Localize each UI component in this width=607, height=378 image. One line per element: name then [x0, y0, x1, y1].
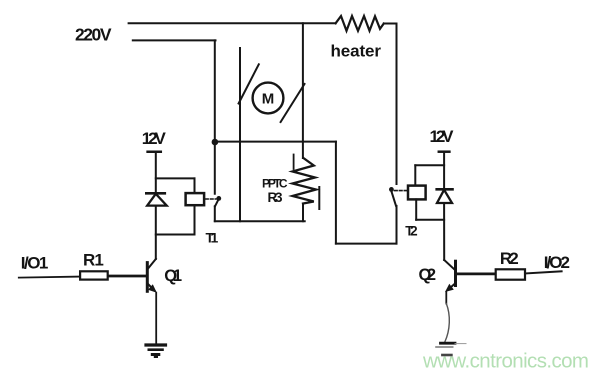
transistor Q1 emitter arrowhead	[148, 284, 157, 293]
svg-text:M: M	[262, 91, 275, 108]
thermistor R3 PPTC zigzag	[293, 158, 317, 204]
wire junction row horizontal	[215, 141, 336, 143]
switch T2 blade	[391, 191, 396, 206]
switch slash right of motor	[281, 84, 305, 122]
wire I/O1 to R1	[19, 277, 80, 278]
wire 220V top line	[129, 22, 336, 24]
wire right vertical drop to T2 switch	[396, 24, 398, 185]
wire heater to right drop	[384, 23, 397, 25]
wire R2 to I/O2	[525, 271, 562, 273]
svg-text:R3: R3	[268, 190, 283, 205]
wire T1 switch to bottom horizontal	[214, 206, 216, 221]
svg-text:12V: 12V	[142, 129, 167, 148]
motor M circle	[253, 83, 284, 114]
relay T1 loop right wire lower	[194, 205, 196, 234]
relay T1 dashed link	[206, 198, 217, 200]
transistor Q1 base bar	[146, 263, 149, 292]
wire PPTC bottom stub	[302, 204, 304, 222]
relay T2 dashed link	[395, 190, 408, 192]
transistor Q1 collector lead	[148, 259, 156, 268]
switch slash left of motor	[239, 64, 259, 103]
ground under Q1	[146, 345, 166, 357]
diode D1 cathode bar	[146, 192, 165, 195]
wire 220V lower line	[133, 39, 216, 41]
switch T1 blade	[215, 200, 218, 207]
relay T1 loop bottom wire	[156, 234, 195, 236]
wire mid vertical x303 (from top wire to PPTC)	[302, 23, 304, 158]
relay T2 loop bottom wire	[416, 219, 444, 221]
switch T1 contact dot	[216, 196, 221, 201]
svg-text:R2: R2	[500, 249, 519, 268]
relay T1 loop top wire	[156, 177, 195, 179]
switch T2 contact dot	[389, 187, 394, 192]
wire 220V drop to T1	[214, 40, 216, 193]
resistor R1 box	[80, 271, 108, 279]
svg-text:R1: R1	[83, 251, 104, 270]
wire curved lead to ground	[445, 304, 450, 343]
wire mid vertical x240 (motor branch)	[239, 48, 241, 221]
wire 12V right down	[443, 152, 445, 190]
power 12V left terminal bar	[148, 151, 161, 154]
transistor Q2 emitter lead	[449, 284, 456, 290]
relay T2 loop left wire upper	[414, 165, 416, 185]
diode D2 triangle	[437, 190, 452, 203]
wire bottom horizontal (right loop)	[336, 243, 397, 245]
svg-text:Q1: Q1	[164, 267, 182, 285]
wire diode to Q1 collector	[155, 206, 157, 259]
wire 12V left down	[155, 152, 157, 194]
relay T1 loop right wire upper	[194, 178, 196, 193]
transistor Q2 collector lead	[444, 260, 454, 270]
svg-text:heater: heater	[331, 42, 382, 61]
thermistor R3 right stub stroke	[318, 187, 320, 209]
wire T2 switch to bottom corner	[396, 206, 398, 244]
node junction dot	[212, 139, 219, 146]
svg-text:PPTC: PPTC	[262, 177, 288, 191]
svg-text:I/O2: I/O2	[544, 253, 570, 272]
wire Q1 emitter to ground	[155, 293, 157, 344]
resistor heater	[336, 16, 384, 31]
resistor R2 box	[496, 269, 525, 279]
diode D1 triangle	[147, 194, 167, 206]
relay T1 coil box	[186, 193, 205, 205]
relay T2 coil box	[408, 186, 426, 200]
thermistor R3 left stub stroke	[293, 155, 295, 170]
transistor Q2 emitter arrowhead	[445, 284, 454, 292]
svg-text:Q2: Q2	[419, 266, 437, 284]
relay T2 loop top wire	[415, 164, 444, 166]
svg-text:12V: 12V	[430, 127, 455, 146]
wire Q2 emitter down	[445, 292, 447, 304]
svg-text:www.cntronics.com: www.cntronics.com	[422, 349, 589, 372]
svg-text:T1: T1	[206, 230, 219, 246]
wire diode D2 to Q2	[443, 203, 445, 260]
transistor Q1 base wire from R1	[108, 275, 146, 278]
transistor Q1 emitter lead	[148, 284, 155, 291]
wire mid vertical x336	[335, 142, 337, 244]
power 12V right terminal bar	[439, 150, 450, 153]
transistor Q2 base bar	[454, 261, 457, 285]
diode D2 cathode bar	[437, 188, 453, 191]
svg-text:220V: 220V	[75, 25, 112, 45]
relay T2 loop left wire lower	[415, 199, 417, 219]
svg-text:I/O1: I/O1	[21, 254, 49, 273]
svg-text:T2: T2	[405, 224, 417, 239]
wire bottom horizontal (left)	[215, 220, 305, 222]
ground under Q2	[436, 343, 466, 355]
transistor Q2 base wire to R2	[457, 273, 496, 276]
